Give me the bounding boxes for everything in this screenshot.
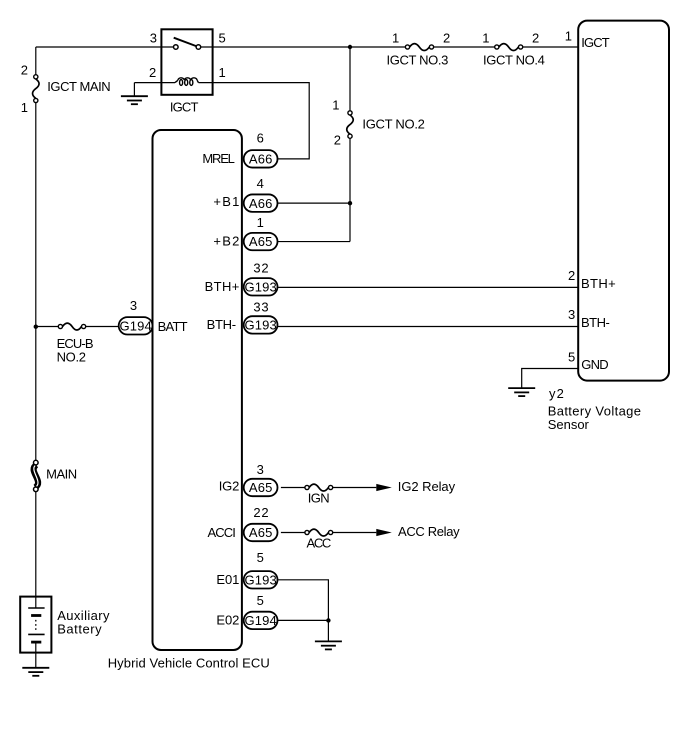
svg-text:IG2: IG2 (219, 479, 240, 494)
svg-text:E01: E01 (216, 572, 239, 587)
svg-text:2: 2 (149, 65, 156, 80)
svg-text:5: 5 (257, 550, 264, 565)
svg-text:1: 1 (565, 29, 572, 44)
svg-text:A66: A66 (249, 196, 273, 211)
svg-text:G193: G193 (245, 279, 277, 294)
svg-text:G194: G194 (245, 613, 277, 628)
svg-text:Sensor: Sensor (548, 417, 590, 432)
svg-text:3: 3 (150, 30, 157, 45)
svg-text:3: 3 (257, 462, 264, 477)
svg-text:4: 4 (257, 176, 264, 191)
svg-text:3: 3 (130, 298, 137, 313)
svg-text:Battery: Battery (57, 621, 102, 636)
svg-text:BTH+: BTH+ (581, 276, 616, 291)
svg-text:5: 5 (257, 593, 264, 608)
svg-text:IGCT NO.2: IGCT NO.2 (362, 116, 425, 131)
svg-text:BTH-: BTH- (207, 317, 237, 332)
svg-text:ACCI: ACCI (208, 525, 236, 540)
svg-text:2: 2 (334, 133, 341, 148)
svg-text:+B1: +B1 (213, 194, 239, 209)
svg-text:2: 2 (21, 63, 28, 78)
svg-text:G193: G193 (245, 317, 277, 332)
svg-text:G194: G194 (120, 318, 152, 333)
svg-text:Hybrid Vehicle Control ECU: Hybrid Vehicle Control ECU (108, 656, 270, 671)
svg-text:22: 22 (253, 505, 268, 520)
svg-text:1: 1 (392, 30, 399, 45)
svg-text:y2: y2 (549, 386, 564, 401)
svg-text:+B2: +B2 (213, 233, 239, 248)
svg-text:IGCT: IGCT (581, 35, 610, 50)
svg-text:1: 1 (257, 215, 264, 230)
svg-text:32: 32 (253, 260, 268, 275)
svg-text:33: 33 (253, 299, 268, 314)
svg-text:BATT: BATT (158, 319, 188, 334)
svg-text:E02: E02 (216, 613, 239, 628)
svg-text:IGCT: IGCT (170, 100, 199, 115)
svg-text:IGCT NO.3: IGCT NO.3 (387, 53, 449, 68)
svg-text:2: 2 (443, 30, 450, 45)
svg-text:ACC: ACC (307, 536, 332, 551)
svg-text:1: 1 (21, 100, 28, 115)
svg-text:BTH-: BTH- (581, 315, 610, 330)
svg-text:3: 3 (568, 307, 575, 322)
svg-text:ACC Relay: ACC Relay (398, 524, 460, 539)
svg-text:BTH+: BTH+ (205, 279, 240, 294)
svg-text:IGCT NO.4: IGCT NO.4 (483, 53, 545, 68)
svg-text:IGN: IGN (308, 491, 330, 506)
svg-text:1: 1 (219, 65, 226, 80)
svg-text:1: 1 (332, 98, 339, 113)
svg-text:A65: A65 (249, 234, 273, 249)
svg-text:A65: A65 (249, 480, 273, 495)
svg-text:6: 6 (257, 130, 264, 145)
svg-text:1: 1 (482, 30, 489, 45)
svg-text:A66: A66 (249, 151, 273, 166)
svg-text:2: 2 (568, 268, 575, 283)
svg-text:GND: GND (581, 357, 609, 372)
svg-text:IG2 Relay: IG2 Relay (398, 479, 456, 494)
svg-text:2: 2 (532, 30, 539, 45)
svg-text:MAIN: MAIN (46, 467, 77, 482)
svg-text:NO.2: NO.2 (57, 349, 86, 364)
svg-text:5: 5 (219, 30, 226, 45)
svg-text:G193: G193 (245, 572, 277, 587)
svg-text:IGCT MAIN: IGCT MAIN (47, 79, 110, 94)
svg-text:MREL: MREL (202, 151, 235, 166)
svg-text:5: 5 (568, 350, 575, 365)
svg-text:A65: A65 (249, 525, 273, 540)
